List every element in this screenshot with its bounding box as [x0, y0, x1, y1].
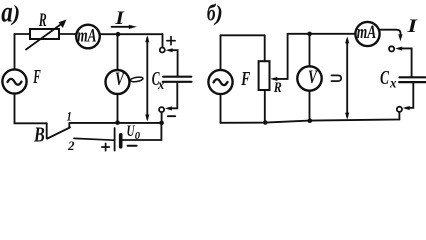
node junction V bottom — [308, 118, 313, 123]
resistor R2 (potentiometer body) — [259, 61, 270, 90]
battery U0 long plate — [114, 128, 116, 151]
svg-text:mA: mA — [357, 23, 377, 43]
wire wiper tap with arrow to R — [274, 34, 288, 79]
svg-text:x: x — [389, 76, 396, 91]
wire rheostat to mA — [59, 33, 76, 35]
label Cx — [380, 67, 397, 91]
source F (AC generator) — [2, 69, 26, 93]
node junction bottom right — [159, 121, 164, 126]
wire Cx connection line (double arrow) — [146, 38, 148, 119]
rheostat arrow — [26, 24, 62, 50]
label Cx — [152, 68, 164, 93]
node terminal bottom right — [397, 107, 402, 112]
wire capacitor bottom lead with arrow to terminal — [168, 82, 177, 109]
node plus terminal — [160, 48, 165, 53]
wire source down to bottom bus — [220, 94, 222, 123]
plus sign — [167, 37, 175, 45]
svg-text:V: V — [115, 69, 125, 90]
wire mA exit hook with down arrow — [380, 30, 401, 37]
node junction V top — [307, 32, 312, 37]
label R — [38, 10, 47, 31]
battery U0 short plate — [119, 135, 123, 147]
node terminal top right — [389, 46, 394, 51]
wire capacitor bottom lead with arrow to terminal — [406, 82, 413, 108]
label F — [241, 68, 251, 90]
voltmeter V1 bottom lead — [117, 94, 119, 123]
wire top-left horizontal into rheostat — [15, 33, 31, 35]
current arrow I — [112, 26, 131, 28]
voltmeter V1 top lead — [117, 34, 119, 70]
voltmeter V2 — [297, 66, 321, 90]
minus sign — [168, 115, 175, 117]
wire corner down to plus terminal — [162, 34, 164, 47]
label a) — [1, 0, 20, 28]
label I — [406, 16, 418, 37]
svg-text:R: R — [38, 10, 47, 31]
capacitor C_x plates — [163, 76, 191, 78]
wire left side down to source — [14, 34, 16, 69]
switch B blade — [47, 127, 70, 138]
svg-text:mA: mA — [77, 26, 96, 46]
svg-text:F: F — [33, 66, 41, 88]
node junction V bottom — [115, 120, 120, 125]
wire top bus right segment — [288, 33, 356, 35]
label I — [114, 8, 124, 29]
label 2 — [67, 138, 75, 153]
svg-text:I: I — [406, 16, 418, 37]
svg-text:C: C — [380, 67, 389, 89]
voltmeter V2 bottom lead — [309, 91, 311, 121]
plus sign battery — [102, 143, 109, 150]
svg-text:V: V — [308, 67, 318, 88]
minus sign battery — [128, 145, 137, 147]
wire bottom bus — [221, 120, 400, 123]
label F — [33, 66, 41, 88]
capacitor C_x2 plates — [400, 76, 426, 78]
wire capacitor top lead with arrow to terminal — [169, 50, 178, 76]
node minus terminal — [159, 107, 164, 112]
voltmeter V1 case tab — [130, 76, 143, 82]
voltmeter V2 top lead — [309, 34, 311, 66]
wire R bottom lead — [264, 90, 266, 123]
wire top bus left segment — [221, 34, 265, 36]
resistor R1 (rheostat body) — [30, 29, 59, 39]
svg-text:R: R — [273, 80, 282, 96]
label U0 — [127, 123, 141, 142]
label b) — [207, 0, 223, 25]
wire down to R top — [264, 35, 266, 61]
label B — [33, 123, 45, 147]
svg-text:1: 1 — [67, 109, 72, 124]
voltmeter V2 case tab — [331, 75, 341, 81]
node junction R bottom — [263, 120, 268, 125]
svg-text:2: 2 — [67, 138, 75, 153]
wire U measurement line (double arrow) — [346, 40, 348, 117]
switch contact 1 — [68, 123, 70, 127]
wire battery to bottom-right junction — [123, 123, 162, 140]
svg-text:): ) — [11, 1, 21, 26]
voltmeter V1 — [106, 70, 130, 94]
wire source down to bottom corner — [15, 94, 47, 124]
label R — [273, 80, 282, 96]
switch contact 2 wire to battery — [74, 138, 114, 140]
ammeter mA — [76, 25, 100, 49]
bottom bus wire — [69, 122, 161, 124]
svg-text:В: В — [33, 123, 45, 147]
svg-text:x: x — [157, 78, 164, 93]
node junction (I / V tap) — [116, 32, 121, 37]
switch B hinge drop — [46, 123, 48, 138]
source F2 (AC generator) — [208, 70, 232, 94]
svg-text:а: а — [1, 0, 13, 28]
svg-text:U: U — [127, 123, 136, 140]
ammeter mA2 — [355, 22, 379, 46]
wire terminal down to bus corner — [398, 112, 400, 120]
wire minus terminal down to bus — [161, 112, 163, 123]
wire left side down to source — [220, 35, 222, 70]
wire capacitor top lead with arrow to terminal — [399, 48, 412, 77]
wire mA to corner — [100, 33, 163, 35]
svg-text:): ) — [213, 1, 223, 26]
svg-text:F: F — [241, 68, 251, 90]
label 1 — [67, 109, 72, 124]
